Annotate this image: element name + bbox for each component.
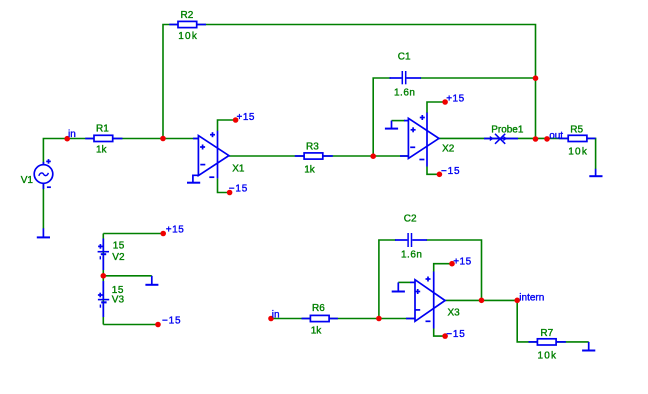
ground (V1) xyxy=(37,228,50,237)
resistor R1 xyxy=(85,135,122,141)
LABELS-BLUE xyxy=(68,94,563,341)
svg-text:C1: C1 xyxy=(398,52,411,63)
resistor R6 xyxy=(302,315,338,321)
voltage source V1 xyxy=(34,159,53,189)
resistor R5 xyxy=(559,135,596,141)
svg-text:1.6n: 1.6n xyxy=(394,88,415,99)
wire battery +15 rail xyxy=(103,233,163,235)
svg-text:C2: C2 xyxy=(404,214,417,225)
svg-text:1.6n: 1.6n xyxy=(401,250,422,261)
wire in2 through R6 to X3 input xyxy=(271,318,415,320)
wire battery midpoint to ground xyxy=(103,275,152,277)
node X1 -15 xyxy=(227,190,233,196)
node X2 output junction xyxy=(533,136,539,142)
svg-text:15: 15 xyxy=(113,240,125,251)
svg-text:intern: intern xyxy=(519,292,544,303)
wire X2 ground branch xyxy=(392,120,406,122)
svg-text:R3: R3 xyxy=(306,141,319,152)
op-amp X3 xyxy=(406,272,445,329)
battery V2 xyxy=(98,239,109,271)
svg-text:−15: −15 xyxy=(446,329,465,340)
wire X2 +15 supply xyxy=(427,102,445,113)
node in (bottom) xyxy=(268,316,274,322)
svg-text:R5: R5 xyxy=(570,124,583,135)
ground (R7) xyxy=(582,342,595,351)
svg-text:−15: −15 xyxy=(441,166,460,177)
node -15 rail xyxy=(155,322,161,328)
ground (X3) xyxy=(392,282,405,291)
node battery midpoint xyxy=(101,273,107,279)
wire node A up through R2 across top down to output node xyxy=(163,25,536,140)
node R6/C2/X3 xyxy=(376,316,382,322)
wire X1 -15 supply xyxy=(218,178,230,192)
node C1/R2 feedback xyxy=(533,75,539,81)
svg-text:10k: 10k xyxy=(568,147,588,158)
probe Probe1 xyxy=(484,134,518,144)
node R3/C1/X2 xyxy=(370,153,376,159)
node X3 -15 xyxy=(442,333,448,339)
wire battery stack vertical xyxy=(102,234,104,325)
svg-text:V2: V2 xyxy=(112,252,125,263)
svg-text:Probe1: Probe1 xyxy=(491,124,524,135)
svg-text:R6: R6 xyxy=(312,303,325,314)
svg-text:1k: 1k xyxy=(311,325,323,336)
capacitor C2 xyxy=(395,233,427,247)
ground (X2) xyxy=(385,121,398,129)
ground (battery midpoint) xyxy=(145,276,158,285)
node out xyxy=(544,136,550,142)
svg-text:V1: V1 xyxy=(21,175,34,186)
wire X1 +15 supply xyxy=(218,120,236,131)
svg-text:1k: 1k xyxy=(304,165,316,176)
resistor R2 xyxy=(169,21,206,27)
wire C2 feedback from R6 node to X3 output node xyxy=(379,240,396,319)
svg-text:R1: R1 xyxy=(96,123,109,134)
LABELS-GREEN xyxy=(21,10,588,362)
battery V3 xyxy=(98,281,109,317)
svg-text:R2: R2 xyxy=(181,10,194,21)
svg-text:X2: X2 xyxy=(442,144,455,155)
svg-text:out: out xyxy=(549,131,563,142)
op-amp X2 xyxy=(400,113,439,167)
node X2 +15 xyxy=(442,99,448,105)
wire V1 bottom to ground xyxy=(42,184,44,229)
node X1 +15 xyxy=(233,117,239,123)
wire battery -15 rail xyxy=(103,324,158,326)
svg-text:in: in xyxy=(272,309,280,320)
wire X1 output through R3 to X2 inverting input xyxy=(229,155,409,157)
capacitor C1 xyxy=(390,71,422,84)
ground (X1) xyxy=(187,175,200,182)
wire X2 output through Probe1 and R5 to ground xyxy=(439,138,596,169)
svg-text:+15: +15 xyxy=(237,112,255,123)
svg-text:X3: X3 xyxy=(448,308,461,319)
wire X3 +15 supply xyxy=(434,264,452,272)
op-amp X1 xyxy=(193,131,229,179)
svg-text:X1: X1 xyxy=(232,164,245,175)
resistor R3 xyxy=(295,153,333,159)
svg-text:10k: 10k xyxy=(178,31,198,42)
wire X3 -15 supply xyxy=(434,329,445,337)
svg-text:+15: +15 xyxy=(166,225,184,236)
svg-text:in: in xyxy=(68,129,76,140)
ground (R5) xyxy=(589,169,602,176)
node X3 +15 xyxy=(449,261,455,267)
svg-text:+15: +15 xyxy=(453,257,471,268)
wire X2 -15 supply xyxy=(427,167,439,175)
svg-text:10k: 10k xyxy=(538,350,558,361)
wire C1 feedback from R3 node to output node xyxy=(373,78,391,156)
node in (top) xyxy=(64,136,70,142)
svg-text:−15: −15 xyxy=(162,316,181,327)
svg-text:−15: −15 xyxy=(229,184,248,195)
svg-text:R7: R7 xyxy=(540,328,553,339)
resistor R7 xyxy=(529,339,566,345)
node X3 output junction xyxy=(479,298,485,304)
node intern xyxy=(514,298,520,304)
node +15 rail xyxy=(160,231,166,237)
svg-text:+15: +15 xyxy=(446,94,464,105)
svg-text:1k: 1k xyxy=(96,145,108,156)
wire V1 to in node to R1 to X1 input xyxy=(43,139,198,165)
svg-text:V3: V3 xyxy=(112,295,125,306)
wire X3 output to intern node down through R7 to ground xyxy=(445,300,589,342)
node A (R1/R2/X1) xyxy=(160,136,166,142)
node X2 -15 xyxy=(437,172,443,178)
wire X3 ground branch xyxy=(398,281,410,283)
